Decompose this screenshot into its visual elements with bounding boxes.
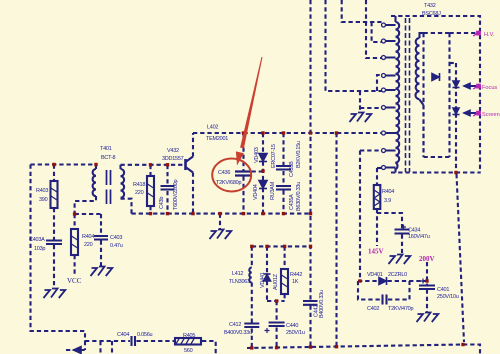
svg-text:145V: 145V [368, 248, 384, 256]
svg-text:T2KV/470p: T2KV/470p [388, 306, 413, 312]
svg-text:V432: V432 [167, 148, 179, 154]
svg-text:R442: R442 [290, 272, 302, 278]
svg-text:C401: C401 [437, 287, 449, 293]
svg-text:C43b: C43b [159, 197, 165, 209]
svg-text:R404: R404 [82, 234, 94, 240]
svg-text:250V/1u: 250V/1u [286, 330, 305, 336]
svg-text:C440: C440 [286, 323, 298, 329]
svg-text:T2KV/680p: T2KV/680p [216, 180, 241, 186]
svg-text:3DD1557: 3DD1557 [162, 156, 184, 162]
svg-text:0.056u: 0.056u [137, 332, 153, 338]
svg-text:B400V0.33u: B400V0.33u [224, 330, 252, 336]
svg-text:VCC: VCC [67, 277, 82, 285]
svg-text:VD441: VD441 [260, 272, 266, 288]
svg-text:H.V.: H.V. [484, 32, 495, 38]
svg-text:3.9: 3.9 [384, 198, 391, 204]
svg-text:103p: 103p [34, 246, 45, 252]
svg-text:BCT-8: BCT-8 [101, 155, 116, 161]
svg-text:C403: C403 [110, 235, 122, 241]
svg-text:Focus: Focus [482, 85, 497, 91]
svg-text:BSC68J: BSC68J [422, 11, 441, 17]
svg-text:160V/47u: 160V/47u [408, 234, 430, 240]
svg-text:220: 220 [84, 242, 93, 248]
svg-text:C436: C436 [218, 170, 230, 176]
svg-text:R418: R418 [133, 182, 145, 188]
svg-text:VD401: VD401 [367, 272, 383, 278]
svg-text:560: 560 [184, 348, 193, 354]
svg-text:C412: C412 [229, 322, 241, 328]
svg-text:T401: T401 [100, 146, 112, 152]
svg-text:B630V/0.33u: B630V/0.33u [296, 182, 302, 211]
svg-text:1K: 1K [292, 279, 299, 285]
svg-text:B2KV/0.15u: B2KV/0.15u [296, 141, 302, 168]
svg-text:TEM2001: TEM2001 [206, 136, 228, 142]
svg-text:T432: T432 [424, 3, 436, 9]
svg-text:AU01Z: AU01Z [273, 273, 279, 290]
svg-text:VD404: VD404 [253, 184, 259, 200]
svg-text:C435B: C435B [289, 161, 295, 177]
svg-text:390: 390 [39, 197, 48, 203]
svg-text:C402: C402 [367, 306, 379, 312]
svg-text:RU3AM: RU3AM [270, 181, 276, 200]
svg-text:C403A: C403A [29, 237, 45, 243]
svg-text:ERC07-15: ERC07-15 [271, 144, 277, 168]
svg-text:R403: R403 [36, 188, 48, 194]
svg-text:Screen: Screen [482, 112, 500, 118]
svg-text:T600V/2200p: T600V/2200p [173, 180, 179, 210]
svg-text:R405: R405 [183, 333, 195, 339]
svg-text:250V/10u: 250V/10u [437, 294, 459, 300]
svg-text:220: 220 [135, 190, 144, 196]
svg-text:0.47u: 0.47u [110, 243, 123, 249]
svg-text:R404: R404 [382, 189, 394, 195]
svg-text:TLN3063: TLN3063 [229, 279, 250, 285]
svg-text:200V: 200V [419, 255, 435, 263]
svg-text:L402: L402 [207, 125, 218, 131]
svg-text:C404: C404 [117, 332, 129, 338]
svg-text:VD403: VD403 [254, 147, 260, 163]
svg-text:L412: L412 [232, 271, 243, 277]
svg-text:B400V0.33u: B400V0.33u [319, 290, 325, 318]
svg-text:C435A: C435A [289, 194, 295, 210]
svg-text:C434: C434 [408, 228, 420, 234]
svg-text:2CZRL0: 2CZRL0 [388, 272, 407, 278]
